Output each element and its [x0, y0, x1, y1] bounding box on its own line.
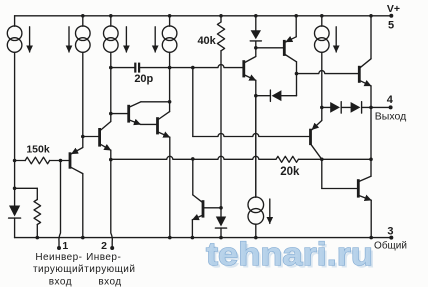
node T7 collector junction	[295, 72, 299, 76]
svg-text:20p: 20p	[134, 73, 153, 85]
node T5 base junction	[219, 206, 223, 210]
wire I3 column	[110, 68, 112, 114]
current source I4	[169, 16, 171, 26]
svg-text:tehnari.ru: tehnari.ru	[206, 236, 373, 272]
current arrow I1	[29, 27, 31, 52]
svg-text:20k: 20k	[280, 166, 300, 178]
svg-text:5: 5	[388, 19, 394, 31]
transistor T3 (darlington 1)	[111, 113, 129, 115]
capacitor 20p	[134, 63, 136, 73]
diode D3	[255, 16, 257, 30]
node cap-I3 junction	[109, 66, 113, 70]
current source I2	[82, 16, 84, 26]
pin 1 terminal	[57, 246, 61, 250]
wire T10 base	[321, 159, 323, 188]
svg-text:тирующий: тирующий	[84, 264, 135, 275]
node T5 collector junction	[191, 157, 195, 161]
transistor T4 (darlington 2)	[141, 123, 158, 125]
wire bottom common rail	[15, 237, 392, 239]
svg-text:V+: V+	[387, 3, 400, 15]
current arrow I2	[68, 27, 70, 52]
diode D1	[9, 206, 20, 217]
node I5-rail junction	[320, 14, 324, 18]
wire D4 left lead	[256, 95, 271, 97]
node T6 emitter-diode junction	[254, 94, 258, 98]
transistor T6 (gain NPN)	[242, 60, 245, 77]
wire to vertical resistor	[15, 187, 38, 189]
node I2-rail junction	[81, 14, 85, 18]
transistor T10 (output NPN lower)	[357, 179, 360, 197]
node I5-diode junction	[320, 106, 324, 110]
wire diode chain to pin4	[362, 106, 391, 108]
pin 4 terminal	[389, 105, 393, 109]
wire T8 base line	[297, 71, 360, 74]
diode D4	[272, 90, 282, 101]
current arrow I5	[335, 27, 337, 52]
node T10 emitter-rail junction	[369, 236, 373, 240]
svg-text:тирующий: тирующий	[33, 264, 84, 275]
svg-text:Инвер-: Инвер-	[86, 252, 121, 263]
svg-text:1: 1	[62, 240, 68, 252]
node T7 base junction	[254, 46, 258, 50]
node T8 collector-rail junction	[369, 14, 373, 18]
node 150k-left junction	[13, 159, 17, 163]
node I3-rail junction	[109, 14, 113, 18]
current arrow I6	[269, 199, 271, 223]
wire pin1 lead	[59, 161, 61, 247]
wire T4 emitter to rail	[169, 137, 171, 237]
node E-capline junction	[191, 66, 195, 70]
current arrow I3	[125, 27, 127, 52]
wire feedback line left	[111, 156, 276, 159]
node T1 collector-rail junction	[81, 236, 85, 240]
current arrow I4	[154, 27, 156, 52]
node resistor-rail junction	[36, 236, 40, 240]
node T3 collector junction	[168, 100, 172, 104]
svg-text:вход: вход	[49, 276, 72, 287]
node T4 emitter-rail junction	[168, 236, 172, 240]
current source I5	[321, 16, 323, 26]
node D3-rail junction	[254, 14, 258, 18]
node pin1-base junction	[59, 159, 63, 163]
current source I1	[14, 16, 16, 26]
transistor T7 (PNP)	[256, 47, 284, 49]
resistor 40k	[220, 16, 222, 22]
svg-text:150k: 150k	[26, 144, 50, 156]
node darlington base junction	[109, 112, 113, 116]
transistor T1 (input PNP)	[61, 160, 71, 162]
diode D6	[341, 106, 350, 108]
wire T9 base line	[193, 134, 311, 137]
wire top V+ rail	[15, 15, 392, 17]
node 20k-T9 junction	[320, 158, 324, 162]
pin 2 terminal	[110, 246, 114, 250]
wire left column to diode	[14, 161, 16, 207]
watermark tehnari.ru	[206, 236, 376, 275]
svg-text:40k: 40k	[197, 35, 216, 47]
svg-text:Выход: Выход	[375, 111, 406, 123]
transistor T5 (mirrored NPN)	[203, 207, 221, 209]
node feedback line start junction	[109, 158, 113, 162]
transistor T2	[83, 136, 100, 138]
transistor T8 (output NPN upper)	[358, 66, 361, 83]
svg-text:Неинвер-: Неинвер-	[35, 252, 82, 263]
node I4-capline junction	[168, 66, 172, 70]
svg-text:4: 4	[387, 94, 394, 106]
wire T3 collector line	[141, 101, 170, 103]
transistor T9 (output PNP)	[309, 129, 312, 145]
diode D2	[220, 208, 222, 217]
svg-text:Общий: Общий	[374, 239, 407, 251]
svg-text:2: 2	[101, 240, 107, 252]
node T5 emitter-rail junction	[191, 236, 195, 240]
node I6-rail junction	[254, 236, 258, 240]
wire feedback line right	[298, 158, 371, 160]
wire cap line right	[170, 65, 244, 68]
node T7 emitter-rail junction	[294, 14, 298, 18]
resistor R-input	[34, 200, 41, 225]
wire T6 emitter column	[255, 96, 257, 198]
wire cap line	[111, 67, 136, 69]
node output junction	[369, 106, 373, 110]
current source I6	[255, 96, 257, 198]
resistor 20k	[276, 156, 298, 162]
node D2-rail junction	[219, 236, 223, 240]
node T1 emitter-base junction	[81, 135, 85, 139]
node feedback-output junction	[369, 158, 373, 162]
current source I3	[110, 16, 112, 26]
node left-T junction	[13, 187, 17, 191]
svg-text:3: 3	[387, 226, 393, 238]
resistor 150k	[25, 157, 49, 164]
node I4-rail junction	[168, 14, 172, 18]
diode D5	[322, 106, 330, 108]
wire pin2 lead	[111, 150, 113, 246]
pin 5 terminal	[389, 14, 393, 18]
svg-text:вход: вход	[98, 276, 121, 287]
wire J column	[370, 107, 372, 176]
node 40k-rail junction	[219, 14, 223, 18]
pin 3 terminal	[389, 236, 393, 240]
wire E column	[192, 68, 194, 137]
